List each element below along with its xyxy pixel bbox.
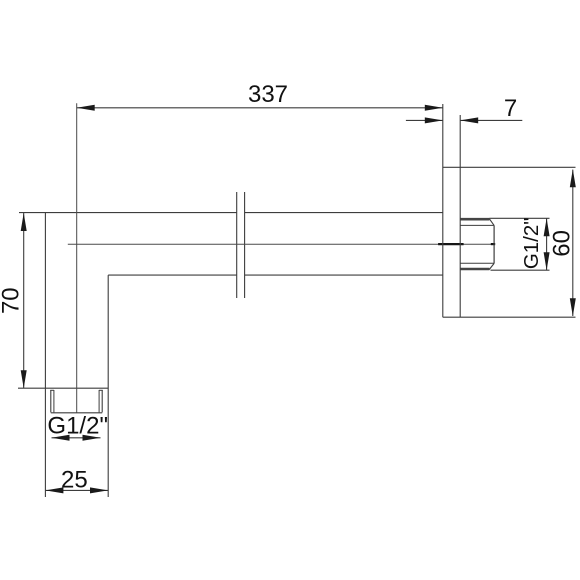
dimension 25 text: [61, 467, 88, 494]
dimension 7 left arrow pointing right: [425, 117, 443, 123]
socket thread left top hook: [50, 389, 54, 391]
dimension 7 line left part: [406, 119, 443, 121]
break line 2: [244, 192, 246, 298]
extension line top for G1/2 dim: [489, 217, 549, 219]
horizontal center line bold end dash: [491, 243, 495, 245]
arm left edge with extension to 25 dim: [44, 213, 46, 497]
dimension 25 left arrow: [45, 487, 63, 493]
socket thread right root line: [98, 390, 100, 412]
svg-text:G1/2": G1/2": [520, 217, 543, 269]
dimension 337 line: [77, 107, 443, 109]
dimension G1/2 right bottom arrow: [544, 252, 550, 270]
nipple end face: [493, 225, 495, 263]
dimension G1/2 bottom text: [47, 413, 108, 440]
tube top edge (left segment before break): [19, 212, 237, 214]
dimension 60 top arrow: [570, 169, 576, 187]
arm right edge from inner corner with extension to 25 dim: [107, 275, 109, 497]
extension line bottom for G1/2 dim: [491, 269, 550, 271]
wall plate top edge with extension for 60 dim: [443, 166, 576, 168]
dimension G1/2 right line: [546, 218, 548, 270]
dimension G1/2 right top arrow: [544, 218, 550, 236]
dimension 70 line: [23, 213, 25, 388]
dimension 7 text: [504, 95, 517, 122]
socket thread left crest line: [50, 390, 52, 412]
dimension 337 text: [248, 81, 288, 108]
dimension G1/2 bottom right arrow: [83, 435, 101, 441]
svg-text:25: 25: [61, 467, 88, 494]
nipple thread bottom root: [461, 262, 494, 264]
dimension 7 right arrow pointing left: [460, 117, 478, 123]
wall plate right face: [459, 115, 461, 317]
svg-text:70: 70: [0, 287, 25, 314]
dimension 60 bottom arrow: [570, 298, 576, 316]
wall plate bottom edge with extension for 60 dim: [443, 316, 576, 318]
dimension 25 right arrow: [90, 487, 108, 493]
nipple thread top root: [461, 224, 494, 226]
vertical center line of arm: [76, 103, 78, 413]
socket thread right crest line: [101, 390, 103, 412]
wall plate left face: [442, 104, 444, 317]
socket thread left root line: [53, 390, 55, 412]
dimension 337 right arrow: [425, 105, 443, 111]
dimension 70 bottom arrow: [21, 370, 27, 388]
socket thread right top hook: [99, 389, 103, 391]
nipple thread bottom crest: [461, 268, 490, 271]
dimension 7 leader line right part: [460, 119, 522, 121]
nipple thread top crest: [461, 218, 490, 221]
tube bottom edge (right segment after break): [245, 274, 443, 276]
dimension 60 line: [572, 170, 574, 316]
horizontal center line bold dash through plate: [438, 243, 464, 245]
dimension 70 text rotated: [0, 287, 25, 314]
svg-text:7: 7: [504, 95, 517, 122]
dimension 60 text rotated: [549, 230, 576, 257]
nipple chamfer bottom: [489, 263, 494, 269]
socket bottom line: [51, 412, 102, 414]
nipple chamfer top: [489, 219, 494, 226]
dimension 337 left arrow: [77, 105, 95, 111]
arm bottom end face with left extension for 70 dim: [18, 387, 108, 389]
dimension 70 top arrow: [21, 213, 27, 231]
svg-text:G1/2": G1/2": [47, 413, 108, 440]
horizontal center line of tube: [68, 243, 495, 245]
dimension G1/2 bottom left arrow: [52, 435, 70, 441]
break line 1: [236, 192, 238, 298]
svg-text:337: 337: [248, 81, 288, 108]
dimension 25 line: [45, 489, 108, 491]
dimension G1/2 bottom double arrow line: [52, 437, 101, 439]
svg-text:60: 60: [549, 230, 576, 257]
tube bottom edge (left segment from inner corner to break): [108, 274, 237, 276]
tube top edge (right segment after break): [245, 212, 443, 214]
dimension G1/2 right text rotated: [520, 217, 543, 269]
